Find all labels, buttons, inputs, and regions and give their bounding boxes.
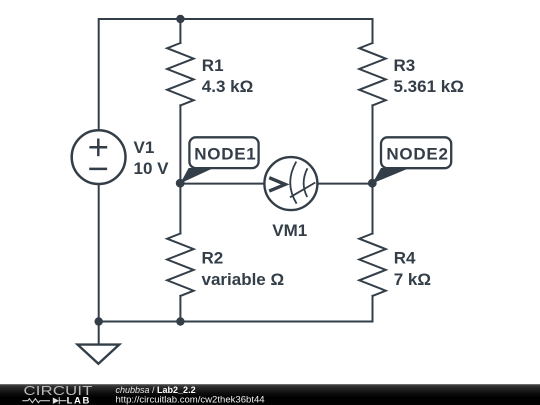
svg-text:variable Ω: variable Ω: [202, 270, 285, 289]
svg-text:R4: R4: [394, 249, 416, 268]
svg-text:5.361 kΩ: 5.361 kΩ: [394, 77, 464, 96]
svg-text:NODE2: NODE2: [386, 144, 448, 163]
svg-text:LAB: LAB: [67, 396, 91, 405]
svg-text:R3: R3: [394, 56, 416, 75]
svg-text:VM1: VM1: [272, 221, 307, 240]
svg-text:V1: V1: [134, 138, 155, 157]
svg-text:R2: R2: [202, 249, 224, 268]
svg-text:7 kΩ: 7 kΩ: [394, 270, 431, 289]
svg-text:R1: R1: [202, 56, 224, 75]
svg-text:NODE1: NODE1: [194, 144, 256, 163]
svg-text:http://circuitlab.com/cw2thek3: http://circuitlab.com/cw2thek36bt44: [116, 394, 266, 405]
svg-text:4.3 kΩ: 4.3 kΩ: [202, 77, 253, 96]
svg-text:10 V: 10 V: [134, 159, 170, 178]
